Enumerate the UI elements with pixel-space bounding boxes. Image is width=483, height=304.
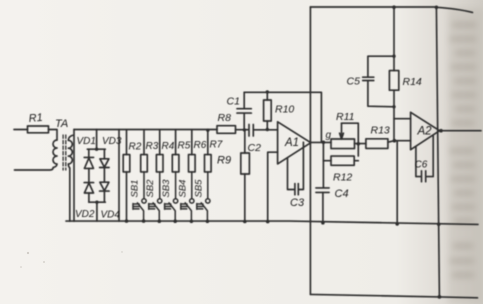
svg-text:R11: R11 — [336, 111, 354, 123]
svg-text:C4: C4 — [335, 188, 349, 200]
svg-text:R10: R10 — [275, 104, 294, 116]
svg-text:R1: R1 — [28, 112, 43, 125]
svg-text:A1: A1 — [284, 137, 299, 149]
svg-text:VD4: VD4 — [101, 210, 121, 221]
svg-text:R14: R14 — [403, 76, 422, 88]
svg-text:C3: C3 — [290, 197, 305, 209]
svg-text:C2: C2 — [248, 142, 262, 154]
svg-text:R9: R9 — [217, 155, 231, 167]
svg-text:R8: R8 — [218, 112, 232, 124]
svg-text:SB4: SB4 — [177, 180, 188, 198]
svg-text:R6: R6 — [194, 140, 207, 151]
svg-text:C5: C5 — [347, 76, 361, 88]
svg-text:SB3: SB3 — [161, 179, 172, 198]
svg-text:R7: R7 — [210, 140, 223, 151]
svg-text:R12: R12 — [333, 172, 352, 184]
svg-text:R3: R3 — [146, 141, 159, 152]
svg-text:C1: C1 — [227, 96, 240, 108]
svg-text:R5: R5 — [178, 141, 191, 152]
svg-text:R4: R4 — [162, 141, 175, 152]
svg-text:VD3: VD3 — [102, 136, 122, 147]
svg-text:C6: C6 — [415, 160, 428, 171]
svg-text:VD1: VD1 — [77, 136, 96, 147]
svg-text:R13: R13 — [371, 125, 390, 137]
svg-text:R2: R2 — [129, 142, 142, 153]
svg-text:A2: A2 — [417, 126, 433, 138]
svg-text:SB5: SB5 — [193, 179, 204, 198]
svg-text:SB1: SB1 — [130, 180, 141, 198]
svg-text:g: g — [326, 130, 332, 141]
svg-text:TA: TA — [55, 118, 68, 130]
svg-text:SB2: SB2 — [145, 179, 156, 198]
svg-text:VD2: VD2 — [75, 209, 95, 220]
